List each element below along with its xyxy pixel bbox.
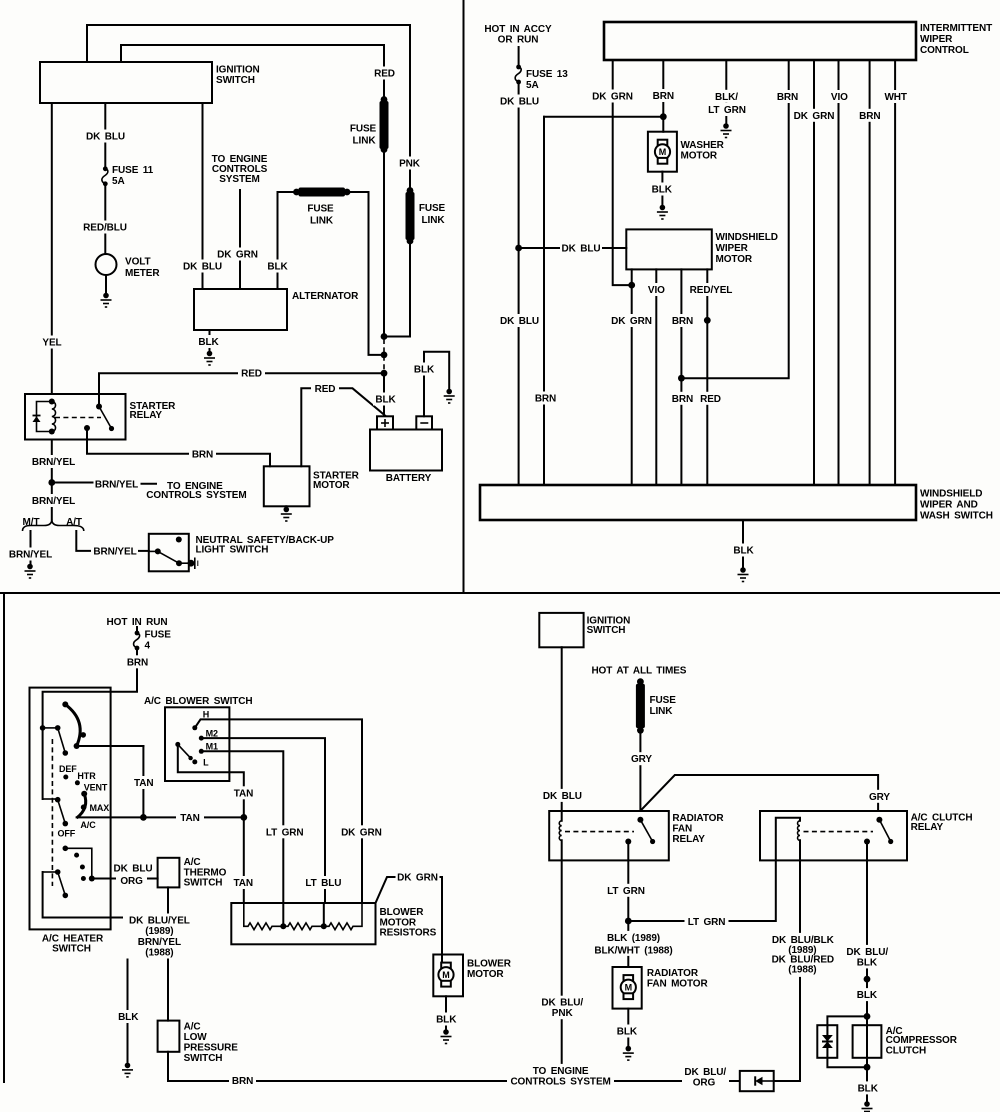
label RED xyxy=(238,367,265,380)
dashed wire to battery feed xyxy=(383,339,385,371)
svg-text:CONTROLS SYSTEM: CONTROLS SYSTEM xyxy=(146,490,246,501)
svg-text:LINK: LINK xyxy=(310,216,334,227)
label HOT IN ACCY OR RUN xyxy=(484,24,552,46)
svg-text:THERMO: THERMO xyxy=(184,867,227,878)
blower motor resistors box xyxy=(231,903,436,944)
svg-text:RED/YEL: RED/YEL xyxy=(690,285,733,296)
ground (starter motor) xyxy=(281,506,292,521)
wire alternator to ground xyxy=(209,330,211,354)
contact dot xyxy=(63,775,68,780)
label LT GRN xyxy=(604,884,648,897)
label DK GRN xyxy=(591,90,634,103)
svg-text:BLK/: BLK/ xyxy=(715,92,738,103)
svg-text:RED: RED xyxy=(374,69,395,80)
wire BRN pin to wash switch xyxy=(869,60,871,485)
svg-text:MOTOR: MOTOR xyxy=(313,480,350,491)
ground (volt meter) xyxy=(101,293,112,307)
svg-text:TO ENGINE: TO ENGINE xyxy=(533,1066,589,1077)
svg-text:4: 4 xyxy=(145,641,151,652)
label BLK xyxy=(373,393,399,406)
svg-text:TAN: TAN xyxy=(134,778,154,789)
label TAN xyxy=(229,876,257,889)
svg-text:DEF: DEF xyxy=(59,764,77,774)
wire RED battery to starter motor xyxy=(301,388,385,466)
svg-text:WHT: WHT xyxy=(884,92,906,103)
wire fuse link right leg to junction xyxy=(347,192,384,355)
svg-text:SWITCH: SWITCH xyxy=(184,1053,223,1064)
svg-text:BRN: BRN xyxy=(859,111,880,122)
svg-text:BLK: BLK xyxy=(118,1012,139,1023)
junction dot xyxy=(48,479,55,486)
svg-text:GRY: GRY xyxy=(869,792,890,803)
svg-text:RADIATOR: RADIATOR xyxy=(647,968,699,979)
heater switch dashed link xyxy=(51,739,53,886)
label BRN xyxy=(533,392,559,405)
svg-text:FUSE: FUSE xyxy=(350,124,377,135)
svg-text:TAN: TAN xyxy=(234,788,254,799)
label LT GRN xyxy=(263,825,306,838)
svg-text:IGNITION: IGNITION xyxy=(216,65,260,76)
svg-text:SWITCH: SWITCH xyxy=(216,75,255,86)
label BLK xyxy=(196,335,221,348)
ignition switch box (bottom) xyxy=(539,613,630,647)
svg-text:FUSE 11: FUSE 11 xyxy=(112,165,154,176)
wire to engine controls down to alternator xyxy=(239,190,241,289)
wire DK GRN resistors to blower motor xyxy=(376,877,443,963)
svg-text:BLK: BLK xyxy=(375,395,396,406)
svg-text:DK BLU: DK BLU xyxy=(114,864,153,875)
section divider horizontal xyxy=(0,592,1000,594)
svg-text:H: H xyxy=(203,709,209,719)
svg-text:METER: METER xyxy=(125,268,160,279)
svg-text:BLK: BLK xyxy=(617,1027,638,1038)
A/C heater switch box xyxy=(30,688,111,955)
svg-text:BRN/YEL: BRN/YEL xyxy=(138,937,181,948)
radiator fan relay dashed link xyxy=(565,831,634,833)
ground (M/T) xyxy=(25,564,36,578)
wire hot in accy to fuse 13 xyxy=(518,47,520,67)
svg-text:FUSE 13: FUSE 13 xyxy=(526,69,568,80)
svg-text:RESISTORS: RESISTORS xyxy=(380,928,437,939)
svg-text:5A: 5A xyxy=(112,176,125,187)
label DK GRN xyxy=(340,825,383,838)
label BRN xyxy=(857,109,884,122)
label BRN xyxy=(774,90,801,103)
label DK GRN xyxy=(396,871,440,884)
svg-text:A/C: A/C xyxy=(80,820,96,830)
svg-text:VENT: VENT xyxy=(84,783,108,793)
wire BLK/LT GRN pin to ground xyxy=(725,60,727,123)
wire blower motor to ground xyxy=(445,996,447,1029)
wire LT BLU tap xyxy=(323,903,325,926)
label DK GRN xyxy=(610,314,653,327)
svg-text:SWITCH: SWITCH xyxy=(184,878,223,889)
ground (fan motor) xyxy=(623,1046,634,1060)
wire ignition to fuse 11 xyxy=(104,103,106,169)
label RED/YEL xyxy=(689,283,734,296)
svg-text:LINK: LINK xyxy=(422,215,446,226)
svg-text:FAN: FAN xyxy=(672,824,692,835)
wire bottom run to engine controls system xyxy=(168,1080,800,1082)
label DK BLU xyxy=(182,260,223,273)
junction dot xyxy=(381,370,388,377)
svg-text:CONTROLS SYSTEM: CONTROLS SYSTEM xyxy=(510,1076,610,1087)
label BLK xyxy=(649,183,675,196)
heater switch arc 2 xyxy=(77,791,88,818)
svg-text:BRN: BRN xyxy=(777,92,798,103)
svg-text:TAN: TAN xyxy=(233,878,253,889)
label BLK xyxy=(411,363,437,376)
battery xyxy=(370,416,442,484)
junction dot xyxy=(704,317,711,324)
starter relay diode branch xyxy=(33,402,52,432)
svg-text:M1: M1 xyxy=(206,742,218,752)
svg-text:VIO: VIO xyxy=(648,285,665,296)
wire DK BLU/BLK relay coil down to diode run xyxy=(799,840,801,1081)
svg-text:DK GRN: DK GRN xyxy=(341,827,382,838)
label RED xyxy=(371,67,398,80)
svg-text:VIO: VIO xyxy=(831,92,848,103)
svg-text:ORG: ORG xyxy=(120,876,143,887)
svg-text:DK BLU: DK BLU xyxy=(86,132,125,143)
wire TAN into resistor box xyxy=(243,817,245,903)
label GRY xyxy=(628,752,655,765)
svg-text:BLOWER: BLOWER xyxy=(380,907,425,918)
svg-text:MOTOR: MOTOR xyxy=(681,150,718,161)
wire junction to battery positive xyxy=(383,373,385,416)
wire wiper motor pin1 DK GRN to wash switch xyxy=(631,269,633,485)
wire RED starter relay to battery junction xyxy=(99,373,384,406)
label BRN (lower) xyxy=(669,392,696,405)
label RED xyxy=(311,382,339,395)
svg-text:YEL: YEL xyxy=(42,338,61,349)
wire DK BLU branch to wiper motor xyxy=(519,247,627,249)
heater switch lever 3 xyxy=(43,869,69,898)
label NEUTRAL SAFETY/BACK-UP LIGHT SWITCH xyxy=(196,535,335,555)
intermittent wiper control box xyxy=(604,22,992,60)
wire BLK battery negative to ground xyxy=(424,352,449,417)
wire A/C clutch relay to compressor clutch xyxy=(866,842,868,1017)
junction dot xyxy=(678,375,685,382)
svg-text:DK BLU: DK BLU xyxy=(562,244,601,255)
svg-text:DK GRN: DK GRN xyxy=(397,873,438,884)
fuse link (horizontal, alternator) xyxy=(293,188,350,227)
wire washer motor to ground xyxy=(661,172,663,205)
wire DK BLU fuse 13 down to wash switch xyxy=(518,82,520,485)
A/C compressor clutch assembly xyxy=(817,1013,957,1071)
svg-text:RADIATOR: RADIATOR xyxy=(672,813,724,824)
svg-text:BLK: BLK xyxy=(414,365,435,376)
label TO ENGINE CONTROLS SYSTEM xyxy=(507,1064,614,1088)
washer motor xyxy=(648,132,725,172)
svg-text:TAN: TAN xyxy=(180,813,200,824)
wire GRY branch to A/C clutch relay xyxy=(642,775,878,811)
heater switch lever 2 xyxy=(43,797,69,826)
label RED/BLU xyxy=(81,221,129,234)
wire thermo switch to low pressure switch xyxy=(167,887,169,1020)
label GRY xyxy=(866,790,893,803)
label BRN/YEL xyxy=(29,494,78,507)
label DK BLU/BLK (1989) DK BLU/RED (1988) xyxy=(768,933,838,977)
A/C low pressure switch xyxy=(158,1021,239,1065)
wire BRN fuse 4 into heater switch xyxy=(43,648,137,799)
label BRN xyxy=(650,89,677,102)
starter relay coil xyxy=(49,399,56,435)
svg-text:WIPER AND: WIPER AND xyxy=(920,500,978,511)
label BLK xyxy=(854,988,881,1001)
wire branch to engine controls xyxy=(52,482,93,484)
svg-text:A/C: A/C xyxy=(184,857,201,868)
label DK GRN xyxy=(216,248,259,261)
diode (engine controls feed) xyxy=(740,1071,774,1091)
wire wash switch to ground BLK xyxy=(742,520,744,567)
A/C clutch relay coil xyxy=(798,821,800,841)
svg-text:OR RUN: OR RUN xyxy=(498,35,539,46)
fuse link (RED) xyxy=(350,96,389,153)
fuse link (GRY) xyxy=(636,678,676,733)
svg-text:ORG: ORG xyxy=(693,1077,716,1088)
svg-text:LT GRN: LT GRN xyxy=(688,917,726,928)
svg-text:INTERMITTENT: INTERMITTENT xyxy=(920,23,992,34)
svg-text:BRN/YEL: BRN/YEL xyxy=(95,480,138,491)
svg-text:BLK: BLK xyxy=(858,1083,879,1094)
blower switch L contact xyxy=(192,757,209,767)
label BRN xyxy=(124,655,151,668)
svg-text:FUSE: FUSE xyxy=(419,203,446,214)
wire volt meter to ground xyxy=(105,275,107,296)
svg-text:BRN: BRN xyxy=(535,394,556,405)
wire heater switch BLK output xyxy=(43,872,128,1062)
svg-text:BRN/YEL: BRN/YEL xyxy=(93,546,136,557)
ground (battery) xyxy=(444,389,455,403)
junction dot xyxy=(864,976,871,983)
svg-text:DK GRN: DK GRN xyxy=(592,92,633,103)
svg-text:BRN/YEL: BRN/YEL xyxy=(32,457,75,468)
wire fan motor to ground xyxy=(627,1009,629,1046)
svg-text:FUSE: FUSE xyxy=(650,695,677,706)
radiator fan relay box xyxy=(549,811,724,860)
label BLK xyxy=(854,1081,881,1094)
svg-text:GRY: GRY xyxy=(631,754,652,765)
wire TAN horizontal heater to resistors xyxy=(77,816,244,818)
svg-text:A/T: A/T xyxy=(66,517,82,528)
windshield wiper motor box xyxy=(626,229,778,269)
svg-text:CONTROL: CONTROL xyxy=(920,45,969,56)
label DK BLU xyxy=(85,130,126,143)
junction dot xyxy=(140,814,147,821)
svg-text:HTR: HTR xyxy=(77,771,96,781)
label TO ENGINE CONTROLS SYSTEM xyxy=(212,154,268,185)
label BRN xyxy=(229,1074,256,1087)
label TAN xyxy=(176,811,204,824)
wire A/T branch to neutral switch xyxy=(76,531,90,551)
svg-text:A/C BLOWER SWITCH: A/C BLOWER SWITCH xyxy=(144,696,253,707)
wire PNK fuse link down and left to junction xyxy=(384,241,410,337)
label BRN/YEL xyxy=(29,455,78,468)
starter relay switch xyxy=(84,404,114,432)
bottom section left border xyxy=(3,593,5,1082)
label DK BLU/ PNK xyxy=(539,996,585,1020)
svg-text:BLK: BLK xyxy=(267,262,288,273)
svg-text:M/T: M/T xyxy=(23,517,40,528)
svg-text:WASHER: WASHER xyxy=(681,140,725,151)
label BLK xyxy=(265,260,290,273)
ground (alternator) xyxy=(204,351,215,365)
svg-text:(1988): (1988) xyxy=(788,965,816,976)
volt meter xyxy=(96,254,161,279)
svg-text:OFF: OFF xyxy=(57,829,75,839)
svg-text:A/C: A/C xyxy=(184,1021,201,1032)
ground (blower motor) xyxy=(441,1029,452,1043)
wire wiper motor pin4 RED/YEL to wash switch xyxy=(706,269,708,485)
svg-text:CLUTCH: CLUTCH xyxy=(886,1046,927,1057)
svg-text:PNK: PNK xyxy=(399,159,421,170)
wire ignition pin1 to PNK fuse link column xyxy=(87,25,410,191)
label LT GRN xyxy=(706,103,748,116)
wire M/T branch to ground xyxy=(30,531,32,564)
label DK BLU xyxy=(560,242,602,255)
radiator fan relay coil xyxy=(559,821,561,841)
wire low pressure switch to bottom run xyxy=(167,1052,169,1081)
svg-text:BRN: BRN xyxy=(672,316,693,327)
blower switch M2 contact and wire xyxy=(199,728,325,903)
wire LT GRN horizontal to A/C clutch relay coil xyxy=(628,818,800,921)
label DK BLU xyxy=(498,95,541,108)
heater switch lower contacts xyxy=(63,846,95,882)
label BRN xyxy=(669,314,696,327)
label VIO xyxy=(827,90,852,103)
svg-text:BLK: BLK xyxy=(733,546,754,557)
wire YEL ignition to starter relay xyxy=(51,103,53,394)
svg-text:LT BLU: LT BLU xyxy=(305,878,341,889)
svg-text:SWITCH: SWITCH xyxy=(52,943,91,954)
label BLK xyxy=(614,1025,641,1038)
label BRN/YEL xyxy=(6,548,55,561)
wire wiper motor pin3 BRN to wash switch xyxy=(680,269,682,485)
svg-text:DK BLU/: DK BLU/ xyxy=(541,998,583,1009)
fuse link (PNK) xyxy=(406,187,446,244)
starter relay dashed link xyxy=(55,417,101,419)
svg-text:WINDSHIELD: WINDSHIELD xyxy=(920,489,982,500)
wire heater switch to thermo switch xyxy=(92,878,158,880)
radiator fan motor xyxy=(613,967,709,1009)
junction dot xyxy=(660,113,667,120)
neutral safety/back-up light switch xyxy=(149,534,198,572)
svg-text:FAN MOTOR: FAN MOTOR xyxy=(647,978,709,989)
svg-text:BRN: BRN xyxy=(127,657,148,668)
svg-text:L: L xyxy=(203,757,209,767)
wire dash xyxy=(139,550,149,552)
label DK GRN xyxy=(793,109,836,122)
svg-text:WIPER: WIPER xyxy=(920,34,953,45)
svg-text:DK BLU/YEL: DK BLU/YEL xyxy=(129,915,190,926)
wire ignition to alternator DK BLU xyxy=(202,103,204,289)
label DK BLU/ BLK xyxy=(845,945,890,969)
wire wiper motor pin2 VIO to wash switch xyxy=(655,269,657,485)
wire DK GRN pin to wiper motor pin1 xyxy=(613,60,632,285)
label BLK xyxy=(115,1010,142,1023)
fuse 11 5A xyxy=(102,165,154,187)
junction dot xyxy=(515,245,522,252)
svg-text:MOTOR: MOTOR xyxy=(380,917,417,928)
svg-text:WASH SWITCH: WASH SWITCH xyxy=(920,511,993,522)
label DK BLU (lower left column) xyxy=(498,314,541,327)
svg-text:BLK: BLK xyxy=(652,185,673,196)
ground (washer motor) xyxy=(657,205,668,219)
blower switch common lever xyxy=(175,742,244,818)
svg-text:DK BLU/: DK BLU/ xyxy=(684,1067,726,1078)
svg-text:HOT IN ACCY: HOT IN ACCY xyxy=(484,24,552,35)
svg-text:DK GRN: DK GRN xyxy=(611,316,652,327)
ground (wash switch) xyxy=(738,567,749,581)
svg-text:BRN/YEL: BRN/YEL xyxy=(32,496,75,507)
wire BRN pin to washer motor xyxy=(662,60,664,132)
svg-text:LT GRN: LT GRN xyxy=(607,886,645,897)
junction dot xyxy=(240,814,247,821)
svg-text:FUSE: FUSE xyxy=(307,204,334,215)
svg-text:DK BLU: DK BLU xyxy=(543,791,582,802)
svg-text:DK GRN: DK GRN xyxy=(217,250,258,261)
svg-text:DK GRN: DK GRN xyxy=(794,111,835,122)
wire BRN starter relay to starter motor xyxy=(87,428,270,466)
A/C thermo switch xyxy=(158,857,227,889)
wire LT GRN tap xyxy=(282,903,284,926)
svg-text:LINK: LINK xyxy=(353,136,377,147)
svg-text:PRESSURE: PRESSURE xyxy=(184,1043,239,1054)
svg-text:WINDSHIELD: WINDSHIELD xyxy=(716,232,778,243)
svg-text:LINK: LINK xyxy=(650,706,674,717)
junction dot xyxy=(381,333,388,340)
starter motor box xyxy=(264,466,360,506)
wire fuse 11 to volt meter xyxy=(104,184,106,254)
svg-text:RELAY: RELAY xyxy=(672,834,705,845)
label BLK xyxy=(433,1013,459,1026)
wire dash xyxy=(142,483,157,485)
ground (heater switch) xyxy=(122,1063,133,1077)
wire ignition pin2 to RED fuse link column xyxy=(121,45,384,100)
section divider vertical xyxy=(463,0,465,593)
wire LT GRN fan relay to fan motor xyxy=(627,842,629,968)
svg-text:VOLT: VOLT xyxy=(125,257,151,268)
svg-text:MOTOR: MOTOR xyxy=(467,969,504,980)
svg-text:BLK: BLK xyxy=(857,990,878,1001)
svg-text:DK BLU: DK BLU xyxy=(183,262,222,273)
svg-text:MOTOR: MOTOR xyxy=(716,254,753,265)
ignition switch box (top-left) xyxy=(40,62,260,103)
wire heater switch to TAN riser xyxy=(77,745,144,747)
A/C clutch relay box xyxy=(760,811,973,860)
svg-text:BLK: BLK xyxy=(857,957,878,968)
svg-text:HOT AT ALL TIMES: HOT AT ALL TIMES xyxy=(591,665,686,676)
svg-text:FUSE: FUSE xyxy=(145,629,172,640)
label DK BLU/ ORG xyxy=(682,1065,729,1089)
svg-text:LIGHT SWITCH: LIGHT SWITCH xyxy=(196,544,269,555)
ground (BLK/LT GRN) xyxy=(721,123,732,137)
wire WHT pin to wash switch xyxy=(894,60,896,485)
label TAN xyxy=(130,776,158,789)
svg-text:RED/BLU: RED/BLU xyxy=(83,223,127,234)
wire BRN left column to wash switch xyxy=(543,117,545,485)
wire starter relay down to brace xyxy=(51,440,53,520)
svg-text:LT GRN: LT GRN xyxy=(266,827,304,838)
A/C clutch relay dashed link xyxy=(804,831,874,833)
svg-text:RELAY: RELAY xyxy=(911,822,944,833)
wire compressor clutch to ground xyxy=(866,1067,868,1101)
wire BRN pin to wiper motor BRN column xyxy=(681,60,788,378)
svg-text:(1988): (1988) xyxy=(145,948,173,959)
svg-text:RED: RED xyxy=(241,369,262,380)
label LT GRN xyxy=(685,915,729,928)
